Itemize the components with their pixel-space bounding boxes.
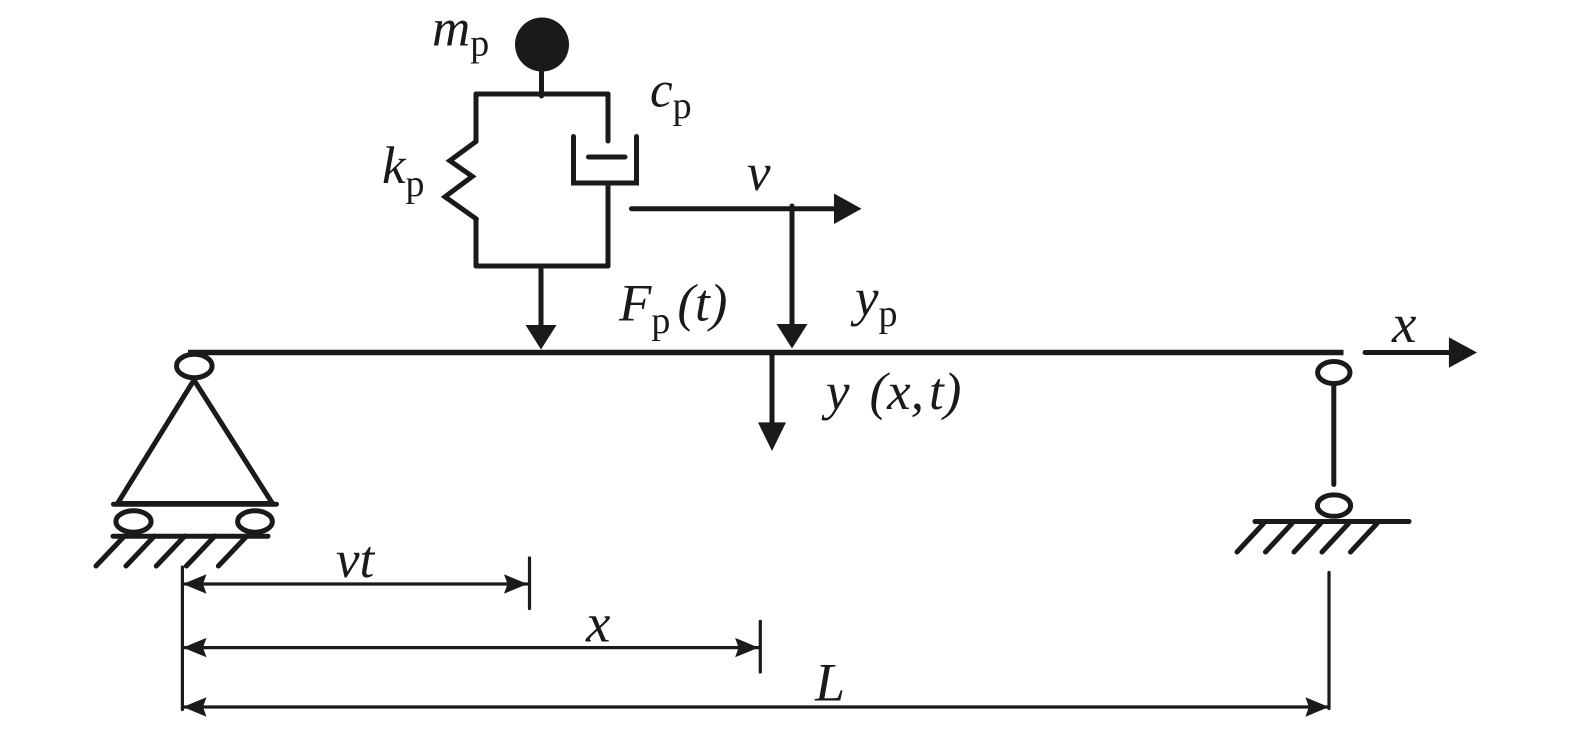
deflection arrow y(x,t) stem <box>770 353 775 424</box>
left ground hatch 1 <box>96 536 125 566</box>
frame top edge <box>476 92 608 97</box>
right dimension extension line <box>1327 573 1330 709</box>
force arrow F_p(t) head <box>526 325 557 350</box>
damper C1 (c_p) cup <box>574 137 637 184</box>
svg-text:x: x <box>585 593 611 654</box>
damper piston plate <box>589 155 626 160</box>
beam <box>188 350 1344 356</box>
right support lower circle <box>1317 495 1350 516</box>
svg-text:v: v <box>747 144 771 202</box>
right support link <box>1331 386 1336 485</box>
right support ground line <box>1255 519 1409 524</box>
dimension vt tick <box>528 558 531 609</box>
left ground hatch 2 <box>126 536 155 566</box>
contact stem from v line down <box>790 206 795 326</box>
dimension L left arrowhead <box>183 697 207 716</box>
svg-text:vt: vt <box>336 531 376 589</box>
left support base line <box>114 502 277 507</box>
dimension x line <box>183 646 759 649</box>
dimension vt line <box>183 582 527 585</box>
x axis arrow head <box>1449 337 1477 368</box>
force arrow F_p(t) stem <box>539 266 544 327</box>
deflection arrow y(x,t) head <box>758 422 786 451</box>
right ground hatch 1 <box>1237 524 1264 553</box>
right ground hatch 2 <box>1266 524 1293 553</box>
frame left edge upper <box>474 94 479 142</box>
right ground hatch 3 <box>1294 524 1321 553</box>
left ground hatch 3 <box>156 536 185 566</box>
dimension vt right arrowhead <box>504 574 528 593</box>
svg-text:x: x <box>1391 293 1417 354</box>
left support roller 1 <box>116 511 151 532</box>
right support upper pin circle <box>1318 362 1350 384</box>
left ground hatch 4 <box>186 536 215 566</box>
left ground hatch 5 <box>218 536 247 566</box>
dimension vt left arrowhead <box>183 574 207 593</box>
frame bottom edge <box>476 264 608 269</box>
right ground hatch 5 <box>1351 524 1378 553</box>
frame left edge lower <box>474 219 479 266</box>
svg-text:y(x,t): y(x,t) <box>821 363 961 421</box>
left support triangle <box>118 380 273 504</box>
wire mass stem <box>539 70 544 96</box>
dimension L right arrowhead <box>1305 697 1329 716</box>
left support roller 2 <box>238 511 273 532</box>
svg-text:L: L <box>814 653 845 713</box>
right ground hatch 4 <box>1322 524 1349 553</box>
x axis arrow line <box>1365 350 1450 355</box>
dimension L line <box>183 705 1329 708</box>
contact arrow head (y_p) <box>777 324 808 349</box>
left support ground line <box>113 534 268 539</box>
damper lower stem <box>606 183 611 266</box>
velocity arrow v line <box>632 206 837 211</box>
dimension x tick <box>759 621 762 672</box>
left support pin circle <box>177 354 213 377</box>
left dimension extension line <box>181 567 184 710</box>
dimension x left arrowhead <box>183 638 207 657</box>
mass M1 (m_p) <box>515 18 569 72</box>
velocity arrow v head <box>834 194 862 225</box>
damper rod <box>606 94 611 141</box>
dimension x right arrowhead <box>735 638 759 657</box>
spring K1 (k_p) <box>445 142 476 220</box>
